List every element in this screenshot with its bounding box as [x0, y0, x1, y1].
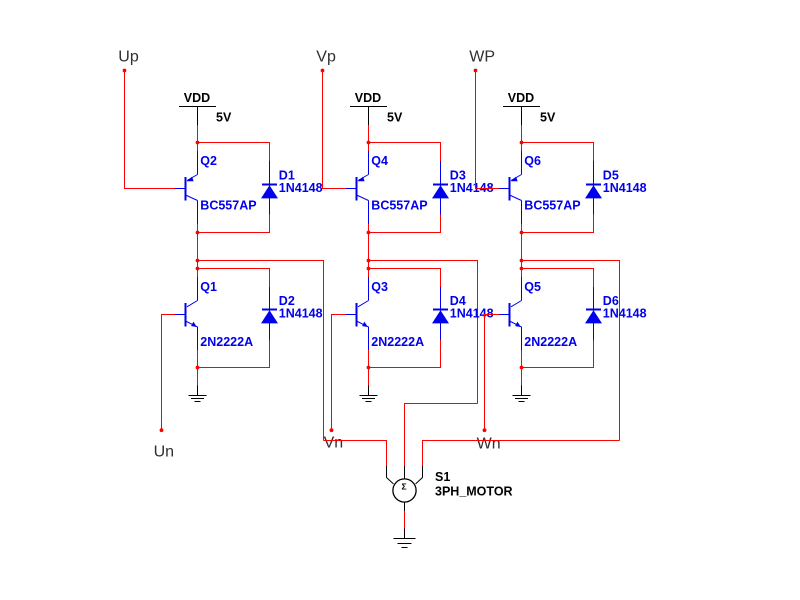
- wire phase V to motor: [369, 261, 478, 404]
- svg-text:VDD: VDD: [184, 91, 210, 105]
- diode D6: [585, 287, 602, 340]
- ground (U column): [189, 386, 207, 402]
- svg-text:5V: 5V: [216, 111, 232, 125]
- junction: [367, 231, 371, 235]
- wire D6 bottom: [522, 340, 594, 368]
- svg-text:Q4: Q4: [371, 154, 388, 168]
- node Vn: [324, 428, 344, 451]
- svg-text:Σ: Σ: [401, 481, 406, 491]
- value BC557AP (Q6): [524, 199, 580, 213]
- wire collector stub: [368, 224, 370, 233]
- transistor Q6 (PNP): [499, 151, 522, 224]
- transistor Q3 (NPN): [346, 277, 369, 350]
- wire to D5 top: [522, 143, 594, 162]
- wire D3 bottom: [369, 215, 441, 233]
- ground (V column): [360, 386, 378, 402]
- junction: [196, 141, 200, 145]
- value 2N2222A (Q5): [524, 335, 577, 349]
- label D6: [603, 294, 619, 308]
- svg-text:BC557AP: BC557AP: [200, 199, 256, 213]
- wire VDD down: [521, 125, 523, 143]
- wire V-phase to motor top: [405, 404, 478, 467]
- value 1N4148 (D2): [279, 307, 323, 321]
- node Wn: [477, 428, 501, 452]
- wire emitter stub: [521, 143, 523, 152]
- wire VDD down: [368, 125, 370, 143]
- wire VDD down: [197, 125, 199, 143]
- wire emitter stub: [197, 143, 199, 152]
- svg-text:VDD: VDD: [355, 91, 381, 105]
- svg-text:1N4148: 1N4148: [279, 181, 323, 195]
- wire to D2 top: [198, 269, 270, 288]
- wire to ground: [521, 368, 523, 386]
- diode D5: [585, 161, 602, 215]
- value 5V: [540, 111, 556, 125]
- junction: [196, 366, 200, 370]
- wire to D1 top: [198, 143, 270, 162]
- label Q3: [371, 280, 388, 294]
- wire W-phase to motor right: [423, 441, 620, 467]
- motor S1 (3PH_MOTOR): [387, 466, 423, 511]
- diode D1: [261, 161, 278, 215]
- wire Wn to Q5 base: [485, 315, 500, 431]
- svg-text:VDD: VDD: [508, 91, 534, 105]
- wire phase W to motor: [522, 261, 620, 441]
- wire Vp to Q4 base: [323, 72, 347, 189]
- svg-text:BC557AP: BC557AP: [371, 199, 427, 213]
- junction: [196, 259, 200, 263]
- svg-text:WP: WP: [469, 48, 495, 65]
- svg-text:1N4148: 1N4148: [279, 307, 323, 321]
- wire phase node U: [197, 233, 199, 278]
- svg-text:2N2222A: 2N2222A: [200, 335, 253, 349]
- junction: [367, 141, 371, 145]
- value 2N2222A (Q3): [371, 335, 424, 349]
- wire Up to Q2 base: [125, 72, 176, 189]
- value 1N4148 (D4): [450, 307, 494, 321]
- wire emitter stub: [368, 350, 370, 368]
- value 1N4148 (D1): [279, 181, 323, 195]
- svg-text:2N2222A: 2N2222A: [524, 335, 577, 349]
- svg-text:2N2222A: 2N2222A: [371, 335, 424, 349]
- junction: [520, 259, 524, 263]
- junction: [196, 231, 200, 235]
- label S1: [435, 470, 450, 484]
- junction: [520, 141, 524, 145]
- label Q1: [200, 280, 217, 294]
- power VDD (V column): [350, 91, 387, 125]
- value BC557AP (Q2): [200, 199, 256, 213]
- wire D4 bottom: [369, 340, 441, 368]
- svg-text:Q6: Q6: [524, 154, 541, 168]
- junction: [520, 231, 524, 235]
- svg-text:3PH_MOTOR: 3PH_MOTOR: [435, 484, 513, 498]
- svg-text:S1: S1: [435, 470, 450, 484]
- wire collector stub: [521, 224, 523, 233]
- wire motor to ground: [404, 511, 406, 529]
- wire Vn to Q3 base: [332, 315, 347, 431]
- wire phase node V: [368, 233, 370, 278]
- node Un: [154, 428, 174, 460]
- value 1N4148 (D3): [450, 181, 494, 195]
- svg-text:5V: 5V: [387, 111, 403, 125]
- diode D3: [432, 161, 449, 215]
- label Q4: [371, 154, 388, 168]
- ground (motor): [394, 529, 416, 548]
- value 1N4148 (D6): [603, 307, 647, 321]
- ground (W column): [513, 386, 531, 402]
- power VDD (U column): [179, 91, 216, 125]
- wire D2 bottom: [198, 340, 270, 368]
- junction: [520, 366, 524, 370]
- svg-text:Vn: Vn: [324, 434, 344, 451]
- svg-text:Q3: Q3: [371, 280, 388, 294]
- wire to ground: [368, 368, 370, 386]
- diode D4: [432, 287, 449, 340]
- label Q5: [524, 280, 541, 294]
- wire Un to Q1 base: [162, 315, 176, 431]
- junction: [196, 267, 200, 271]
- value 2N2222A (Q1): [200, 335, 253, 349]
- value 5V: [387, 111, 403, 125]
- value 5V: [216, 111, 232, 125]
- power VDD (W column): [503, 91, 540, 125]
- wire emitter stub: [197, 350, 199, 368]
- junction: [367, 259, 371, 263]
- label D1: [279, 169, 295, 183]
- transistor Q5 (NPN): [499, 277, 522, 350]
- value 3PH_MOTOR: [435, 484, 513, 498]
- wire phase U to motor: [198, 261, 324, 441]
- wire WP to Q6 base: [476, 72, 500, 189]
- label D3: [450, 169, 466, 183]
- transistor Q1 (NPN): [175, 277, 198, 350]
- svg-text:Q2: Q2: [200, 154, 217, 168]
- svg-text:Q1: Q1: [200, 280, 217, 294]
- svg-text:Un: Un: [154, 443, 174, 460]
- wire to D6 top: [522, 269, 594, 288]
- junction: [520, 267, 524, 271]
- value 1N4148 (D5): [603, 181, 647, 195]
- transistor Q2 (PNP): [175, 151, 198, 224]
- junction: [367, 267, 371, 271]
- label Q6: [524, 154, 541, 168]
- wire emitter stub: [368, 143, 370, 152]
- value BC557AP (Q4): [371, 199, 427, 213]
- label D2: [279, 294, 295, 308]
- diode D2: [261, 287, 278, 340]
- label D5: [603, 169, 619, 183]
- node Vp: [316, 48, 336, 72]
- wire to ground: [197, 368, 199, 386]
- svg-text:5V: 5V: [540, 111, 556, 125]
- wire D1 bottom: [198, 215, 270, 233]
- label Q2: [200, 154, 217, 168]
- wire collector stub: [197, 224, 199, 233]
- svg-text:1N4148: 1N4148: [603, 307, 647, 321]
- svg-text:1N4148: 1N4148: [450, 307, 494, 321]
- wire phase node W: [521, 233, 523, 278]
- wire to D3 top: [369, 143, 441, 162]
- junction: [367, 366, 371, 370]
- wire emitter stub: [521, 350, 523, 368]
- svg-text:Q5: Q5: [524, 280, 541, 294]
- wire D5 bottom: [522, 215, 594, 233]
- svg-text:BC557AP: BC557AP: [524, 199, 580, 213]
- svg-text:Up: Up: [118, 48, 139, 65]
- label D4: [450, 294, 466, 308]
- node Up: [118, 48, 139, 72]
- wire to D4 top: [369, 269, 441, 288]
- transistor Q4 (PNP): [346, 151, 369, 224]
- svg-text:Wn: Wn: [477, 436, 501, 453]
- node WP: [469, 48, 495, 72]
- wire U-phase to motor left: [324, 441, 387, 467]
- svg-text:Vp: Vp: [316, 48, 336, 65]
- svg-text:1N4148: 1N4148: [603, 181, 647, 195]
